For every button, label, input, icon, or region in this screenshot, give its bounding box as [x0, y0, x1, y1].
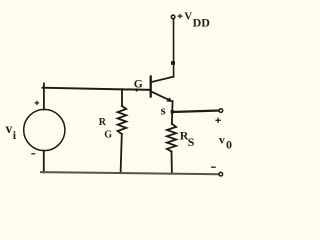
- svg-text:G: G: [134, 79, 143, 91]
- svg-text:DD: DD: [193, 16, 211, 30]
- svg-text:R: R: [99, 117, 107, 128]
- svg-text:v: v: [6, 121, 13, 136]
- svg-text:0: 0: [226, 138, 232, 152]
- svg-text:s: s: [161, 103, 166, 118]
- svg-text:G: G: [104, 130, 112, 141]
- svg-text:V: V: [184, 11, 192, 23]
- svg-text:v: v: [219, 133, 225, 147]
- svg-text:S: S: [188, 135, 195, 149]
